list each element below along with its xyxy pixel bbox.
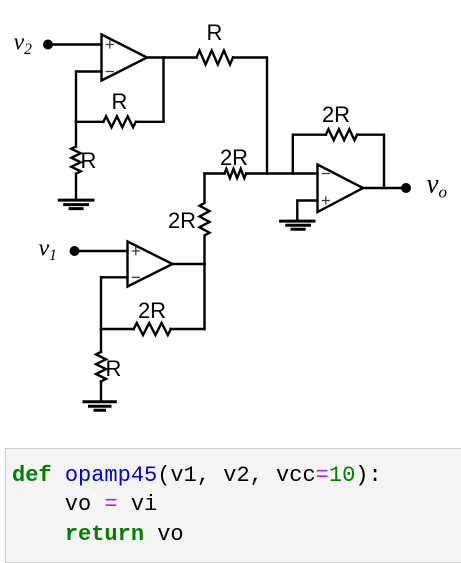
op-amp U2 [318,165,364,213]
svg-text:vo: vo [427,169,447,202]
resistor 2R input (to U2 -) [225,169,247,178]
wire U2 feedback left vertical [293,135,326,174]
op-amp U1 [102,35,148,81]
op-amp U1 - marker [106,71,113,73]
op-amp U2 + marker [322,197,329,204]
wire R to right junction, down to U2 - line [233,58,267,174]
wire v2 to op-amp U1 + input [48,43,102,45]
resistor R feedback U1 [103,116,135,127]
wire U3 feedback left segment [101,328,134,330]
wire U3 feedback right segment [171,328,205,330]
svg-text:2R: 2R [220,145,248,170]
svg-text:R: R [207,20,223,45]
op-amp U3 + marker [132,248,139,255]
wire U2 output [363,187,401,189]
resistor R to ground (U1) [71,147,80,174]
op-amp U2 - marker [322,173,329,175]
ground 2 [281,221,314,229]
wire feedback left segment [76,121,103,123]
node v2 terminal dot [43,40,53,50]
node vo terminal dot [401,183,411,193]
wire U1 feedback tap [162,58,164,122]
wire U3 output [173,263,205,265]
wire ladder line down to U3 feedback [203,264,205,329]
wire feedback right segment [136,121,164,123]
wire U2 + input to ground [297,201,317,220]
svg-text:2R: 2R [138,298,166,323]
svg-text:R: R [106,356,122,381]
wire node to resistor R ground leg [75,122,77,147]
wire U2 feedback right vertical [357,135,384,188]
wire U1 output [147,56,197,58]
resistor 2R feedback U3 [134,323,171,335]
wire resistor to ground 3 [100,381,102,401]
wire node to resistor R ground leg U3 [100,329,102,352]
ground 3 [84,402,115,411]
resistor R series (top) [197,51,234,65]
svg-text:2R: 2R [168,208,196,233]
svg-text:v1: v1 [39,236,57,265]
op-amp U3 - marker [132,276,139,278]
wire 2R to U2 - input [246,172,317,174]
wire U1 - input to feedback node [76,72,102,122]
node v1 terminal dot [70,246,80,256]
resistor 2R vertical (ladder) [200,174,210,265]
wire corner to 2R input resistor of U2 [205,172,225,174]
wire resistor to ground 1 [75,174,77,200]
svg-text:R: R [81,148,97,173]
code cell [5,448,461,563]
resistor 2R feedback U2 [326,129,357,140]
op-amp U3 [128,242,173,287]
op-amp U1 + marker [106,41,113,48]
svg-text:2R: 2R [322,102,350,127]
wire v1 to op-amp U3 + input [75,250,128,252]
ground 1 [59,200,93,209]
svg-text:v2: v2 [14,30,33,59]
wire U3 - input to feedback node [101,277,128,329]
resistor R to ground (U3) [96,352,106,381]
svg-text:R: R [112,89,128,114]
